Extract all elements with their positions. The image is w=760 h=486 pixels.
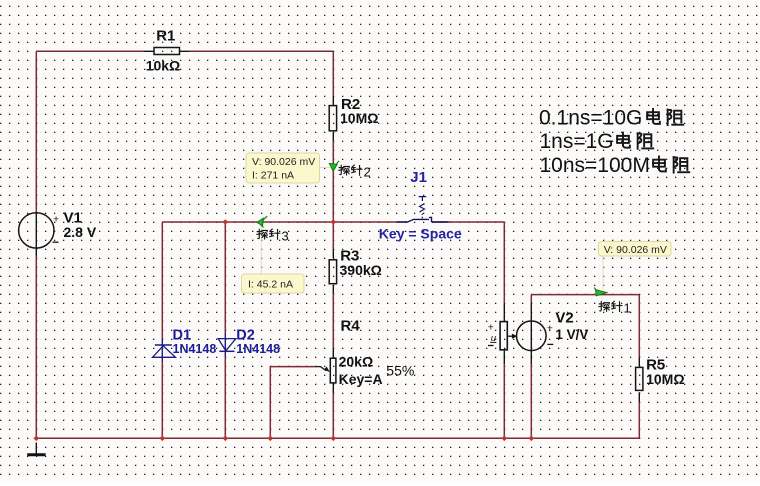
wire V2 output vertical [530, 295, 532, 439]
svg-text:1ns=1G: 1ns=1G [540, 130, 614, 153]
junction node middle-main [331, 219, 337, 225]
probe readout box V/I for probe2 [246, 153, 320, 183]
junction node bus-V2 [529, 436, 535, 442]
annotation text line 2: 1ns=1G resistance [540, 130, 654, 153]
probe arrow 1 (on V2 output) [594, 288, 607, 296]
svg-text:Key = Space: Key = Space [379, 225, 462, 241]
svg-text:1 V/V: 1 V/V [555, 327, 588, 342]
svg-text:10MΩ: 10MΩ [340, 110, 378, 126]
probe readout box I for probe3 [242, 274, 305, 293]
svg-text:20kΩ: 20kΩ [339, 354, 374, 370]
svg-text:1N4148: 1N4148 [236, 342, 280, 356]
svg-text:R4: R4 [341, 317, 361, 334]
probe arrow 2 (on R2 branch) [329, 161, 339, 172]
svg-text:1N4148: 1N4148 [173, 342, 217, 356]
svg-text:+: + [488, 321, 494, 333]
probe readout connector line to probe1 [602, 256, 604, 290]
svg-text:390kΩ: 390kΩ [340, 262, 382, 278]
resistor R3 [329, 248, 382, 294]
dependent source V2 [488, 303, 589, 365]
svg-text:10ns=100M: 10ns=100M [540, 154, 650, 177]
probe label tanzhen3 [257, 228, 289, 243]
svg-text:10kΩ: 10kΩ [146, 57, 181, 73]
svg-text:3: 3 [282, 228, 289, 243]
junction node bus-D2 [223, 436, 229, 442]
svg-text:Key=A: Key=A [339, 371, 383, 387]
svg-text:V: 90.026 mV: V: 90.026 mV [252, 156, 315, 168]
svg-text:V2: V2 [555, 310, 573, 327]
svg-text:I: 45.2 nA: I: 45.2 nA [248, 278, 293, 290]
wire D2 branch [224, 222, 226, 438]
svg-text:+: + [53, 214, 59, 226]
wire R3-R4 column [332, 222, 334, 438]
svg-text:I: 271 nA: I: 271 nA [252, 170, 294, 182]
resistor R1 [144, 28, 189, 74]
junction node middle-D2 [223, 219, 229, 225]
junction node bus-V1 [34, 436, 40, 442]
potentiometer R4 [316, 317, 414, 393]
wire top net V1-R1-R2 [36, 50, 333, 52]
svg-text:1: 1 [624, 301, 631, 316]
wire middle net left of switch [162, 221, 407, 223]
junction node bus-R4 [331, 436, 337, 442]
probe readout box V for probe1 [599, 242, 672, 257]
diode D1 [153, 328, 217, 362]
probe label tanzhen1 [599, 301, 631, 316]
resistor R2 [329, 96, 378, 141]
svg-text:0.1ns=10G: 0.1ns=10G [539, 107, 642, 130]
switch J1 [379, 169, 462, 241]
diode D2 [218, 328, 280, 357]
svg-text:2: 2 [364, 164, 371, 179]
wire left V1 branch [35, 51, 37, 438]
wire V2 top horizontal [531, 294, 639, 296]
ground [27, 443, 45, 455]
wire R4 wiper branch [270, 367, 316, 439]
svg-text:V: 90.026 mV: V: 90.026 mV [604, 244, 667, 256]
annotation text line 1: 0.1ns=10G resistance [539, 107, 683, 130]
wire D1 branch [161, 222, 163, 438]
wire middle net right of switch [432, 221, 505, 223]
voltage source V1 [19, 210, 97, 257]
wire R5 branch [638, 295, 640, 439]
probe readout connector line to probe3 [260, 224, 262, 275]
probe arrow 3 (on middle net) [257, 216, 267, 227]
wire bottom ground bus [36, 437, 639, 439]
resistor R5 [636, 357, 685, 403]
svg-text:2.8 V: 2.8 V [64, 224, 97, 240]
annotation text line 3: 10ns=100M resistance [540, 154, 690, 177]
wire R2 vertical branch [332, 51, 334, 222]
wire control branch down to V2 input [503, 222, 505, 438]
svg-text:R1: R1 [156, 28, 175, 45]
junction node bus-wiper [268, 436, 274, 442]
svg-text:10MΩ: 10MΩ [646, 371, 684, 387]
probe label tanzhen2 [339, 164, 371, 179]
probe readout connector line to probe2 [320, 167, 331, 169]
junction node bus-D1 [160, 436, 166, 442]
svg-text:+: + [547, 322, 553, 334]
svg-text:J1: J1 [410, 169, 427, 186]
svg-text:55%: 55% [386, 363, 414, 379]
junction node bus-control [502, 436, 508, 442]
